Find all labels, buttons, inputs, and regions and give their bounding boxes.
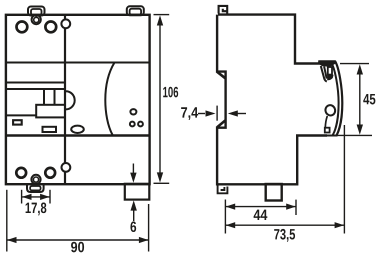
front view: top clip left outer: [28, 7, 45, 16]
dimension 106: up arrowhead: [157, 15, 163, 25]
dimension 6: up arrowhead: [131, 200, 137, 210]
side view DIN claw: bottom line: [327, 135, 338, 137]
dimension 45: bottom tick: [338, 134, 373, 136]
front view: line left of step rect: [6, 114, 36, 116]
front view: face curve: [105, 63, 114, 136]
dimension 6: up arrow stem: [133, 210, 135, 221]
front view: top screw inner: [34, 17, 39, 22]
side view DIN claw: mass under slot: [327, 75, 334, 80]
front view: switch step rect: [36, 105, 65, 118]
front view: indicator circle B: [130, 122, 135, 127]
dimension 17.8: right arrowhead: [40, 194, 50, 200]
front view: horizontal line y135 full width: [6, 134, 150, 136]
front view: toggle cells: [44, 89, 55, 106]
dimension 90: left extension: [6, 190, 8, 252]
front view: horizontal line y62 full width: [6, 62, 150, 64]
side view DIN claw: top blob: [318, 60, 336, 67]
label 90: [71, 242, 84, 253]
dimension 45: down arrowhead: [357, 125, 363, 135]
front view: terminal circle bottom left: [16, 168, 26, 178]
dimension 45: up arrowhead: [357, 64, 363, 74]
dimension 7.4: right arrowhead: [228, 110, 238, 116]
front view: top clip right outer: [127, 6, 144, 15]
side view DIN claw: outer curve: [335, 61, 343, 136]
side view DIN claw: left edge: [321, 66, 327, 82]
front view: vertical divider: [64, 15, 66, 184]
front view: indicator circle C: [138, 122, 143, 127]
label 73,5: [274, 229, 295, 242]
front view: bottom screw inner: [33, 177, 38, 182]
dimension 73.5: line: [226, 224, 344, 226]
label 44: [254, 210, 268, 220]
dimension 6: down arrow stem: [132, 164, 134, 175]
dimension 6: down arrowhead: [130, 173, 136, 183]
front view: terminal circle bottom right: [45, 168, 55, 178]
dimension 106: down arrowhead: [157, 172, 163, 182]
dimension 90: right arrowhead: [139, 237, 149, 243]
dimension 45: top tick: [340, 63, 369, 65]
side view body outline: [217, 15, 327, 185]
dimension 90: line: [7, 239, 148, 241]
front view: band line lower: [6, 88, 65, 90]
dimension 90: left arrowhead: [7, 237, 17, 243]
side view: bottom foot: [266, 184, 282, 201]
dimension 73.5: right arrowhead: [335, 222, 345, 228]
dimension 73.5: right extension: [343, 125, 345, 234]
front view: band line upper: [6, 82, 65, 84]
dimension 44: line: [226, 206, 296, 208]
label 45: [363, 94, 375, 104]
front view: top clip right inner: [130, 9, 142, 15]
front view: indicator window: [13, 120, 22, 124]
side view: lower step diagonal: [217, 121, 225, 128]
dimension 106: bottom tick: [154, 182, 170, 184]
dimension 7.4: left arrowhead: [206, 110, 216, 116]
side view DIN claw: finger: [324, 66, 327, 78]
dimension 17.8: line: [22, 196, 50, 198]
front view: indicator circle A: [130, 109, 136, 114]
dimension 44: right arrowhead: [286, 204, 296, 210]
dimension 17.8: left arrowhead: [22, 194, 32, 200]
side view: upper step diagonal: [217, 72, 225, 78]
dimension 106: top tick: [154, 14, 170, 16]
front view: terminal circle top right: [45, 22, 56, 33]
dimension 45: vertical line: [359, 70, 361, 130]
dimension 7.4: tick: [216, 106, 218, 121]
dimension 44: right extension: [295, 200, 297, 215]
dimension 17.8: left tick: [21, 190, 23, 204]
dimension 90: right extension: [148, 204, 150, 252]
dimension 44: left arrowhead: [226, 204, 236, 210]
front view: bottom screw outer: [31, 175, 40, 184]
dimension 73.5: left arrowhead: [226, 222, 236, 228]
side view DIN claw: mid loop: [324, 104, 337, 117]
dimension 7.4: left arrow line: [198, 113, 205, 115]
side view DIN claw: inner curve: [331, 63, 339, 136]
front view: oval pad: [71, 126, 84, 133]
front view: test button rect: [43, 127, 57, 132]
side view: bottom-left hook: [218, 185, 228, 194]
front view: terminal circle top left: [17, 22, 28, 33]
front view: top screw outer: [32, 15, 41, 24]
side view: top-left hook: [219, 6, 228, 15]
label 6: [130, 221, 136, 232]
side view DIN claw: inner claw edge: [325, 116, 327, 128]
front view: bottom clip tab inner: [30, 186, 40, 190]
side view DIN claw: bottom notch: [325, 128, 330, 133]
front view: bottom foot: [125, 184, 150, 200]
front view: bottom clip tab outer: [27, 185, 44, 193]
dimension 106: vertical line: [159, 20, 161, 178]
front view: toggle knob D bump: [66, 91, 75, 109]
front view: small circle on divider bottom: [62, 163, 71, 172]
dimension 7.4: right arrow line: [237, 113, 246, 115]
label 106: [163, 87, 178, 98]
dimension 17.8: right tick: [49, 190, 51, 204]
label 7,4: [181, 107, 198, 120]
front view: top clip left inner: [31, 9, 42, 15]
front view: small circle on divider top: [61, 19, 70, 28]
dimension 44: left extension: [224, 200, 226, 234]
label 17,8: [26, 203, 47, 216]
side view DIN claw: notch slot: [328, 67, 332, 75]
front view body outline: [6, 15, 150, 184]
